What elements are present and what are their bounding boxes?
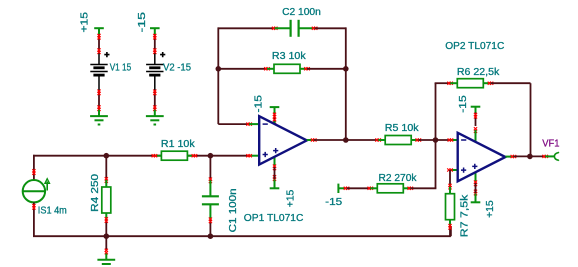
resistor R1: [154, 155, 161, 157]
svg-text:R6 22,5k: R6 22,5k: [457, 67, 500, 78]
pin junction V2 bottom: [153, 90, 156, 93]
node OP1 output junction: [343, 137, 349, 143]
svg-text:R1 10k: R1 10k: [161, 139, 196, 150]
pin junction R6 right: [488, 82, 491, 85]
pin junction OP1 vcc-: [273, 113, 276, 116]
wire IS1 top to bus corner: [33, 155, 35, 180]
power terminal +15 (V1 top): [94, 27, 104, 29]
resistor R5: [378, 139, 385, 141]
svg-text:+15: +15: [286, 189, 297, 207]
pin junction C2 right: [312, 27, 315, 30]
pin junction R2 left: [368, 187, 371, 190]
pin junction OP1 plus: [246, 154, 249, 157]
current source IS1: [23, 180, 45, 202]
node C1-bus junction: [208, 153, 214, 159]
OP1 minus sign: [263, 123, 268, 125]
svg-text:-15: -15: [325, 197, 342, 208]
wire R4 to bottom bus: [105, 219, 107, 236]
pin junction C2 left: [272, 27, 275, 30]
pin junction OP2 vcc+: [474, 181, 477, 184]
wire top bus: [154, 155, 250, 157]
svg-text:C2 100n: C2 100n: [282, 7, 321, 18]
pin junction R1 right: [192, 154, 195, 157]
pin junction IS1 bottom: [32, 204, 35, 207]
ground below V2: [154, 110, 156, 116]
power terminal -15 (OP1 top): [270, 106, 280, 108]
svg-text:+15: +15: [79, 12, 90, 33]
wire C2 row right: [315, 27, 346, 29]
power terminal -15 (V2 top): [150, 27, 160, 29]
pin junction R4 bottom: [105, 217, 108, 220]
wire OP2 top power: [475, 113, 477, 127]
wire R2 to mid vertical: [410, 187, 436, 189]
input terminal -15 (R2 left): [337, 184, 339, 193]
pin junction V1 top: [97, 34, 100, 37]
power terminal -15 (OP2 top): [471, 106, 481, 108]
pin junction R2 terminal: [344, 187, 347, 190]
svg-text:R2 270k: R2 270k: [379, 173, 418, 184]
svg-text:R7 7,5k: R7 7,5k: [459, 194, 470, 238]
pin junction R7 bottom: [448, 224, 451, 227]
svg-text:IS1 4m: IS1 4m: [38, 206, 67, 217]
wire C2 row left: [218, 27, 275, 29]
wire bottom bus: [33, 235, 451, 237]
ground below bottom bus: [105, 254, 107, 260]
svg-text:-15: -15: [137, 12, 148, 33]
resistor R3: [267, 68, 274, 70]
wire ground stub: [105, 236, 107, 251]
svg-text:V2 -15: V2 -15: [163, 63, 191, 74]
resistor R7: [449, 187, 451, 194]
wire OP1 plus lead: [249, 155, 259, 157]
svg-text:R3 10k: R3 10k: [272, 51, 307, 62]
pin junction OP1 vcc+: [273, 165, 276, 168]
OP2 plus sign: [461, 168, 466, 173]
ground below V1: [98, 110, 100, 116]
svg-text:V1 15: V1 15: [110, 63, 132, 74]
wire OP1 top power: [274, 113, 276, 125]
svg-text:-15: -15: [458, 95, 469, 113]
wire OP1 bottom power: [274, 167, 276, 179]
resistor R4: [105, 180, 107, 187]
wire OP2 output: [513, 155, 545, 157]
wire OP2 minus lead: [450, 139, 458, 141]
pin junction R1 left: [152, 154, 155, 157]
wire OP1 bottom power lead: [274, 157, 276, 168]
OP2 minus sign: [461, 139, 466, 141]
pin junction C1 top: [209, 178, 212, 181]
capacitor C1: [209, 180, 211, 196]
wire bus to R4: [105, 156, 107, 181]
wire OP2 output lead: [505, 156, 513, 158]
node R4-bus junction: [104, 153, 110, 159]
pin junction R4 top: [105, 177, 108, 180]
pin junction C1 bottom: [209, 218, 212, 221]
pin junction OP2 out: [511, 155, 514, 158]
wire terminal to R2: [347, 187, 371, 189]
wire R6 row left: [435, 82, 437, 85]
node VF1 junction: [527, 154, 533, 160]
pin junction R5 right: [416, 138, 419, 141]
svg-text:VF1: VF1: [542, 139, 560, 150]
wire C1 to bottom bus: [209, 220, 211, 237]
op-amp OP2: [458, 133, 506, 182]
wire OP2 bottom power lead: [475, 172, 477, 184]
wire R3 row left: [218, 68, 267, 70]
pin junction VF1: [542, 155, 545, 158]
pin junction V1 bottom: [97, 90, 100, 93]
wire V1 top: [98, 34, 100, 52]
pin junction R7 top: [448, 184, 451, 187]
wire OP2 plus down: [449, 170, 451, 188]
capacitor C2: [275, 27, 291, 29]
resistor R6: [450, 82, 457, 84]
node R3 left junction: [216, 66, 222, 72]
wire bus to C1: [209, 156, 211, 181]
OP1 plus sign: [263, 152, 268, 157]
pin junction IS1 top: [32, 169, 35, 172]
wire R5 to OP2: [418, 139, 450, 141]
wire R6 row right: [491, 82, 531, 84]
op-amp OP1: [259, 116, 307, 164]
wire OP1 minus lead: [249, 123, 259, 125]
svg-text:R5 10k: R5 10k: [385, 123, 420, 134]
wire IS1 bottom: [33, 202, 35, 236]
wire OP1 inverting input: [218, 123, 250, 125]
wire OP1 output: [314, 139, 379, 141]
wire R7 bottom: [449, 226, 451, 236]
battery V2: [154, 53, 156, 64]
resistor R2: [370, 187, 377, 189]
wire R3 row right: [307, 68, 346, 70]
wire mid vertical: [435, 83, 437, 188]
power terminal +15 (OP2 bottom): [471, 201, 481, 203]
pin junction OP2 minus: [448, 138, 451, 141]
wire V2 top: [154, 34, 156, 52]
wire V2 bottom: [154, 91, 156, 109]
pin junction R5 left: [375, 138, 378, 141]
wire OP2 top power lead: [475, 130, 477, 142]
wire VF1 lead: [545, 155, 554, 157]
OP1 power plus sign: [273, 148, 278, 153]
battery V1: [98, 53, 100, 64]
pin junction R6 left: [447, 82, 450, 85]
svg-text:-15: -15: [254, 95, 265, 113]
svg-text:OP1 TL071C: OP1 TL071C: [244, 213, 304, 224]
power terminal +15 (OP1 bottom): [270, 187, 280, 189]
wire feedback left vertical: [217, 27, 219, 124]
svg-text:C1 100n: C1 100n: [228, 188, 239, 232]
node feedback junction: [433, 137, 439, 143]
pin junction OP2 vcc-: [474, 113, 477, 116]
pin junction R2 right: [408, 187, 411, 190]
svg-text:+15: +15: [485, 200, 496, 218]
pin junction ground: [105, 249, 108, 252]
OP2 power plus sign: [472, 164, 477, 169]
wire OP2 bottom power: [475, 183, 477, 193]
node R3 right junction: [343, 66, 349, 72]
wire OP2 plus lead: [450, 169, 458, 171]
wire OP1 output lead: [307, 139, 314, 141]
svg-text:R4 250: R4 250: [90, 174, 101, 212]
pin junction R3 left: [264, 67, 267, 70]
wire V1 bottom: [98, 91, 100, 109]
node ground junction: [104, 233, 110, 239]
pin junction OP1 out: [311, 138, 314, 141]
node C1 bottom junction: [208, 233, 214, 239]
pin junction V2 top: [153, 34, 156, 37]
pin junction OP2 plus: [447, 168, 450, 171]
pin junction OP1 minus: [246, 123, 249, 126]
output terminal VF1: [554, 152, 558, 161]
pin junction R3 right: [304, 67, 307, 70]
svg-text:OP2 TL071C: OP2 TL071C: [445, 41, 505, 52]
wire OP1 top power lead: [274, 121, 276, 132]
